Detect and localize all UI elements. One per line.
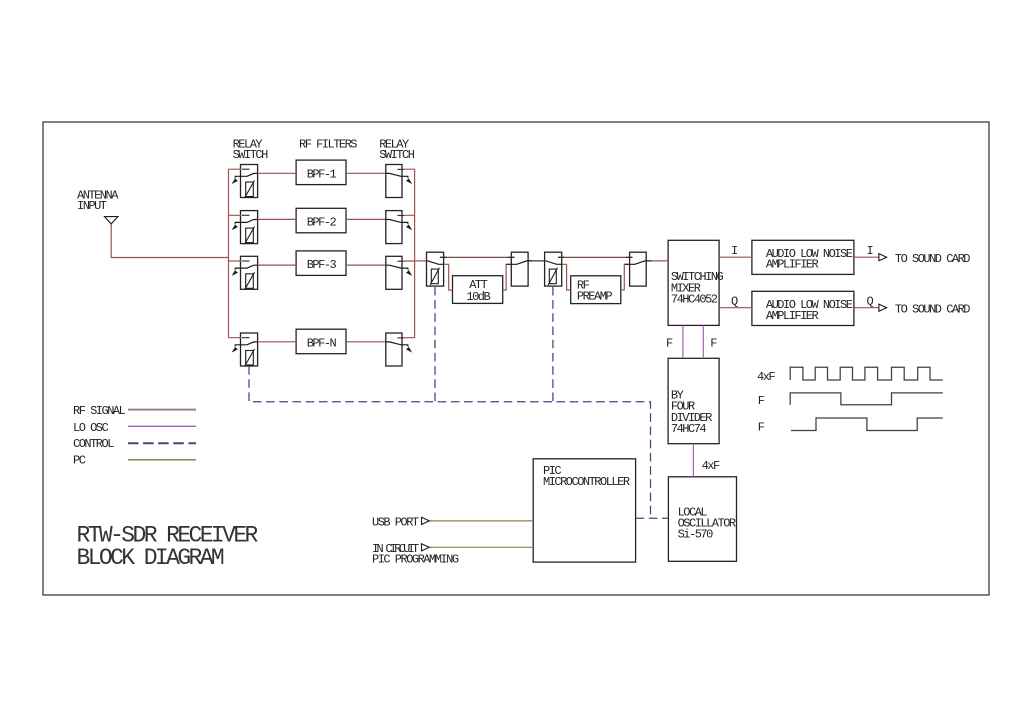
svg-text:TO SOUND CARD: TO SOUND CARD bbox=[895, 252, 970, 266]
svg-text:74HC74: 74HC74 bbox=[671, 422, 707, 436]
svg-text:F: F bbox=[758, 394, 765, 408]
svg-text:Q: Q bbox=[867, 294, 874, 308]
svg-text:SWITCH: SWITCH bbox=[379, 148, 415, 162]
svg-text:USB PORT: USB PORT bbox=[372, 516, 419, 530]
svg-text:4xF: 4xF bbox=[702, 459, 720, 473]
svg-text:PREAMP: PREAMP bbox=[577, 290, 613, 304]
svg-text:I: I bbox=[867, 244, 873, 258]
svg-text:RF FILTERS: RF FILTERS bbox=[299, 138, 357, 152]
svg-text:BPF-3: BPF-3 bbox=[307, 258, 337, 272]
svg-text:F: F bbox=[710, 337, 717, 351]
svg-text:RF SIGNAL: RF SIGNAL bbox=[73, 404, 126, 418]
svg-text:BPF-2: BPF-2 bbox=[307, 216, 337, 230]
svg-text:CONTROL: CONTROL bbox=[73, 437, 114, 451]
svg-text:BPF-1: BPF-1 bbox=[307, 168, 337, 182]
svg-text:74HC4052: 74HC4052 bbox=[671, 292, 718, 306]
svg-text:LO OSC: LO OSC bbox=[73, 421, 109, 435]
svg-text:PC: PC bbox=[73, 454, 86, 468]
svg-text:AMPLIFIER: AMPLIFIER bbox=[766, 258, 819, 272]
svg-text:Si-570: Si-570 bbox=[678, 527, 714, 541]
svg-text:PIC PROGRAMMING: PIC PROGRAMMING bbox=[372, 553, 459, 567]
svg-text:BPF-N: BPF-N bbox=[307, 337, 337, 351]
svg-text:BLOCK DIAGRAM: BLOCK DIAGRAM bbox=[77, 545, 224, 571]
svg-text:MICROCONTROLLER: MICROCONTROLLER bbox=[543, 475, 630, 489]
svg-text:F: F bbox=[758, 421, 765, 435]
svg-text:SWITCH: SWITCH bbox=[233, 148, 269, 162]
svg-text:10dB: 10dB bbox=[466, 290, 490, 304]
svg-text:Q: Q bbox=[731, 294, 738, 308]
svg-text:4xF: 4xF bbox=[757, 370, 775, 384]
svg-text:AMPLIFIER: AMPLIFIER bbox=[766, 309, 819, 323]
svg-text:I: I bbox=[731, 244, 737, 258]
svg-text:F: F bbox=[666, 337, 673, 351]
svg-text:INPUT: INPUT bbox=[77, 199, 107, 213]
svg-text:TO SOUND CARD: TO SOUND CARD bbox=[895, 303, 970, 317]
